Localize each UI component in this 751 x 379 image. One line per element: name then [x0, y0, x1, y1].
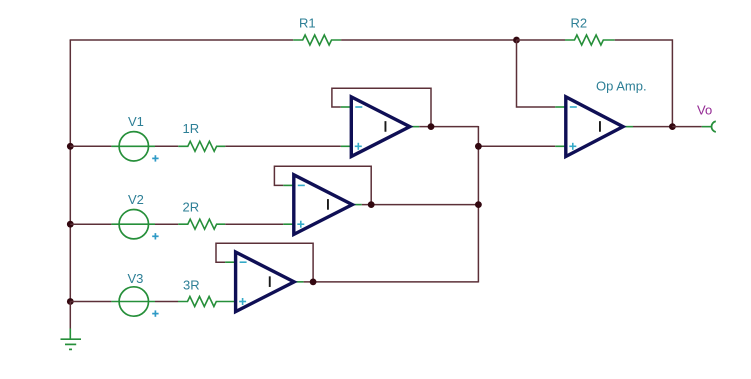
op-amp U4 (Op Amp.) [555, 79, 646, 157]
wire: top node down and right to U4 minus input [517, 40, 556, 107]
node: rail junction row 2 [67, 221, 74, 228]
wire: rail to V2 [70, 223, 111, 225]
wire: U3 feedback loop [216, 243, 313, 282]
node: U2 output junction [368, 201, 375, 208]
resistor R1 [293, 16, 341, 46]
wire: U2 output to bus [362, 204, 479, 206]
svg-text:V1: V1 [128, 114, 144, 129]
wire: vertical bus [477, 126, 479, 283]
wire: U2 feedback loop [274, 166, 371, 204]
op-amp U3 [225, 252, 304, 312]
node: rail junction row 1 [67, 143, 74, 150]
node: rail junction row 3 [67, 298, 74, 305]
svg-text:V2: V2 [128, 192, 144, 207]
wire: V3 to 3R [155, 301, 178, 303]
node: U1 output junction [428, 123, 435, 130]
voltage source V3 [111, 271, 158, 317]
resistor 2R [178, 200, 225, 230]
node: junction top (R1/R2/op-amp minus) [513, 37, 520, 44]
voltage source V1 [111, 114, 158, 162]
node: bus junction U2 output [475, 201, 482, 208]
op-amp U1 [341, 97, 420, 157]
wire: left rail vertical [69, 40, 71, 302]
op-amp U2 [283, 175, 362, 235]
resistor R2 [565, 16, 615, 46]
resistor 3R [178, 278, 235, 307]
wire: top horizontal R1 to node [341, 39, 516, 41]
wire: 2R to U2 plus [225, 223, 283, 225]
wire: top horizontal left of R1 [70, 39, 294, 41]
wire: rail to V3 [70, 301, 111, 303]
node: U3 output junction [310, 278, 317, 285]
voltage source V2 [111, 192, 158, 240]
svg-text:R2: R2 [571, 16, 588, 31]
wire: U1 feedback loop [332, 88, 431, 126]
wire: output node to terminal [672, 126, 701, 128]
svg-text:3R: 3R [183, 278, 200, 293]
wire: top horizontal node to R2 [517, 39, 566, 41]
wire: R2 right, down to output node [615, 40, 673, 127]
wire: rail to ground [69, 302, 71, 329]
wire: V2 to 2R [155, 223, 178, 225]
terminal Vo [697, 103, 716, 132]
wire: U3 output to bus [304, 281, 479, 283]
svg-text:Vo: Vo [697, 103, 712, 118]
wire: rail to V1 [70, 145, 111, 147]
wire: bus to U4 plus input [478, 145, 555, 147]
svg-text:Op Amp.: Op Amp. [596, 79, 647, 94]
svg-text:V3: V3 [128, 271, 144, 286]
svg-text:1R: 1R [183, 121, 200, 136]
wire: V1 to 1R [155, 145, 178, 147]
svg-text:R1: R1 [299, 16, 316, 31]
resistor 1R [178, 121, 225, 151]
node: output junction [669, 123, 676, 130]
wire: U1 output to bus [419, 126, 478, 128]
wire: U4 output to right node [633, 126, 672, 128]
wire: 1R to U1 plus [225, 145, 340, 147]
ground [61, 329, 82, 350]
svg-text:2R: 2R [183, 200, 200, 215]
node: bus junction to U4 plus [475, 143, 482, 150]
